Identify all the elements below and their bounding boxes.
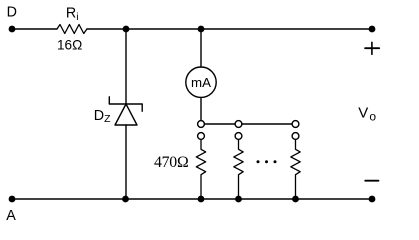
svg-text:A: A — [6, 208, 16, 224]
svg-text:D: D — [7, 5, 17, 21]
svg-text:16Ω: 16Ω — [57, 38, 82, 53]
svg-text:mA: mA — [191, 75, 211, 90]
svg-text:470Ω: 470Ω — [154, 154, 188, 171]
